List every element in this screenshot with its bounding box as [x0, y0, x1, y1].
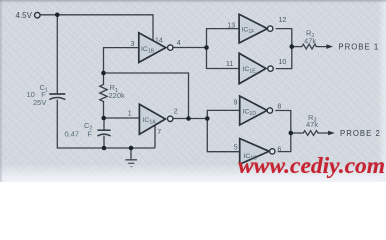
junction Vcc tap	[55, 13, 60, 18]
junction ground	[129, 146, 134, 151]
svg-text:PROBE 1: PROBE 1	[338, 42, 379, 51]
capacitor C2 0.47uF plates	[97, 130, 110, 136]
bubble IC1D pin8	[267, 108, 272, 113]
ground symbol bars	[126, 160, 138, 167]
wire branch to IC1D input pin9	[207, 110, 239, 118]
wire IC1F output pin12	[276, 29, 292, 47]
svg-text:0.47 F: 0.47 F	[65, 130, 93, 139]
svg-text:14: 14	[155, 37, 163, 44]
inverter output bubbles	[168, 26, 275, 154]
bubble IC1A pin2	[168, 116, 173, 121]
wire IC1E output pin10	[276, 47, 292, 69]
resistor R1 220k	[100, 73, 107, 118]
junction R1 bottom / C2 top	[101, 116, 106, 121]
inverter IC1C	[240, 139, 270, 165]
svg-text:12: 12	[279, 17, 287, 24]
junction feedback node	[186, 116, 191, 121]
capacitor C2 wire upper	[103, 118, 105, 130]
junction probe1 node	[290, 44, 295, 49]
terminal 4.5V	[35, 12, 41, 18]
svg-text:220k: 220k	[109, 91, 126, 100]
svg-text:9: 9	[234, 99, 238, 106]
resistor R2 47k	[292, 44, 327, 49]
svg-text:PROBE 2: PROBE 2	[340, 129, 381, 138]
inverter IC1B	[139, 33, 166, 63]
svg-text:1: 1	[128, 110, 132, 117]
junction probe2 node	[289, 131, 294, 136]
svg-text:2: 2	[174, 109, 178, 116]
bubble IC1E pin10	[268, 66, 273, 71]
svg-text:47k: 47k	[306, 120, 318, 129]
wire branch to IC1F input pin13	[207, 29, 240, 48]
svg-text:25V: 25V	[33, 98, 46, 107]
svg-text:4: 4	[177, 40, 181, 47]
svg-text:3: 3	[131, 41, 135, 48]
ground stem	[130, 148, 132, 160]
bubble IC1C pin6	[270, 149, 275, 154]
arrow PROBE 2	[328, 131, 335, 136]
junction C2 bottom	[102, 146, 107, 151]
capacitor C2 wire lower	[103, 136, 105, 148]
svg-text:7: 7	[157, 129, 161, 136]
wire left supply drop (upper)	[56, 15, 58, 94]
wire left supply drop (lower)	[57, 100, 155, 148]
wire pin1 input	[104, 117, 140, 119]
inverter IC1D	[240, 96, 267, 125]
wire top rail	[40, 15, 153, 41]
wire pin2 output	[173, 118, 207, 120]
junction pin4 branch node	[204, 45, 209, 50]
wire IC1D output pin8	[275, 111, 291, 134]
wire branch to IC1E input pin11	[207, 48, 240, 69]
wire pin3 input	[104, 48, 139, 73]
bubble IC1F pin12	[268, 26, 273, 31]
svg-text:8: 8	[277, 103, 281, 110]
op-amp style inverter triangles	[139, 14, 269, 164]
svg-text:10: 10	[279, 59, 287, 66]
capacitor C1 10uF 25V	[49, 94, 65, 100]
wire branch to IC1C input pin5	[207, 119, 239, 152]
arrow PROBE 1	[326, 44, 333, 49]
wire pin7 to ground	[154, 125, 156, 148]
bubble IC1B pin4	[168, 45, 173, 50]
svg-text:5: 5	[234, 145, 238, 152]
wire IC1C output pin6	[278, 133, 291, 152]
inverter IC1E	[239, 53, 266, 84]
wire pin4 output	[174, 47, 207, 49]
svg-text:4.5V: 4.5V	[16, 11, 33, 20]
resistor R3 47k	[291, 131, 329, 136]
junction R1 top	[101, 71, 106, 76]
inverter IC1A	[139, 104, 165, 134]
svg-text:11: 11	[226, 61, 233, 68]
svg-text:13: 13	[227, 23, 235, 30]
watermark www.cediy.com	[238, 153, 386, 180]
junction pin2 branch node	[205, 116, 210, 121]
svg-text:47k: 47k	[304, 37, 316, 46]
inverter IC1F	[239, 14, 267, 43]
wire feedback pin2 to R1 top	[104, 73, 189, 119]
